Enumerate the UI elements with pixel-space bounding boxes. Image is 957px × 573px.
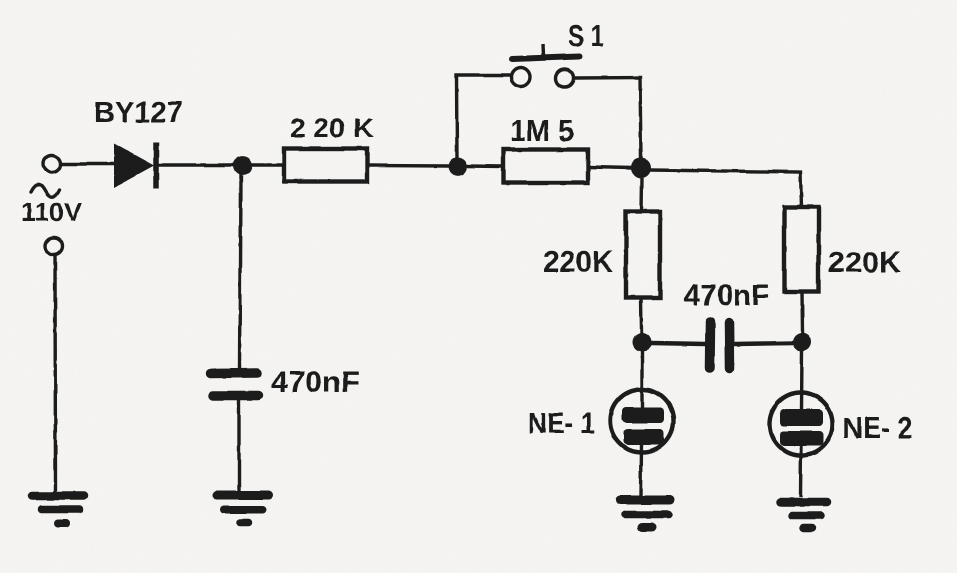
node A xyxy=(233,157,252,176)
svg-text:S 1: S 1 xyxy=(568,18,604,53)
AC source terminal (top) xyxy=(44,156,61,173)
wire node C to right branch xyxy=(650,170,802,208)
wire node D to NE-1 xyxy=(640,351,643,408)
capacitor 470nF (filter) xyxy=(211,373,258,396)
node D xyxy=(633,333,652,352)
AC tilde symbol xyxy=(31,185,59,198)
wire node E to NE-2 xyxy=(800,351,804,410)
wire node A to resistor xyxy=(251,163,284,166)
wire NE-1 to ground xyxy=(639,444,643,496)
wire terminal to diode xyxy=(61,162,115,165)
svg-text:470nF: 470nF xyxy=(684,279,769,312)
wire resistor to node B xyxy=(367,164,450,168)
wire switch branch (right riser) xyxy=(575,78,642,160)
svg-text:NE- 1: NE- 1 xyxy=(528,407,595,440)
svg-text:470nF: 470nF xyxy=(271,366,360,399)
resistor 220K (horizontal) xyxy=(284,149,367,182)
wire diode to node A xyxy=(158,163,236,166)
resistor 1M5 xyxy=(503,150,588,183)
svg-text:2 20 K: 2 20 K xyxy=(290,113,375,143)
svg-text:220K: 220K xyxy=(828,247,901,279)
svg-text:110V: 110V xyxy=(21,197,83,227)
neon lamp NE-2 xyxy=(770,393,833,456)
wire node A down to filter capacitor xyxy=(240,174,241,370)
resistor 220K (left vertical) xyxy=(626,212,660,298)
wire resistor to node D xyxy=(639,297,643,333)
wire node D to coupling capacitor xyxy=(651,343,706,344)
wire filter capacitor to ground xyxy=(237,400,240,492)
neon lamp NE-1 xyxy=(611,390,674,453)
wire node B to 1M5 xyxy=(466,164,503,168)
wire node C down to left vertical resistor xyxy=(639,178,643,212)
ground (filter) xyxy=(217,495,269,523)
diode BY127 xyxy=(114,142,156,189)
resistor 220K (right vertical) xyxy=(785,207,819,292)
svg-text:NE- 2: NE- 2 xyxy=(843,412,913,445)
node C xyxy=(631,158,651,178)
wire coupling capacitor to node E xyxy=(734,343,794,344)
wire resistor to node E xyxy=(800,292,804,333)
wire terminal down to ground xyxy=(53,255,57,492)
wire switch branch (left riser) xyxy=(457,75,513,159)
ground (source) xyxy=(32,496,84,524)
svg-text:220K: 220K xyxy=(543,244,614,279)
wire 1M5 to node C xyxy=(588,167,633,168)
node B xyxy=(449,157,468,176)
ground (NE-1) xyxy=(620,500,670,528)
ground (NE-2) xyxy=(781,502,827,528)
capacitor 470nF (coupling) xyxy=(710,322,730,369)
AC source terminal (bottom) xyxy=(46,238,63,255)
wire NE-2 to ground xyxy=(799,445,803,497)
switch S1 xyxy=(511,44,579,87)
svg-text:1M 5: 1M 5 xyxy=(510,113,574,148)
node E xyxy=(793,333,812,352)
svg-text:BY127: BY127 xyxy=(94,97,183,129)
